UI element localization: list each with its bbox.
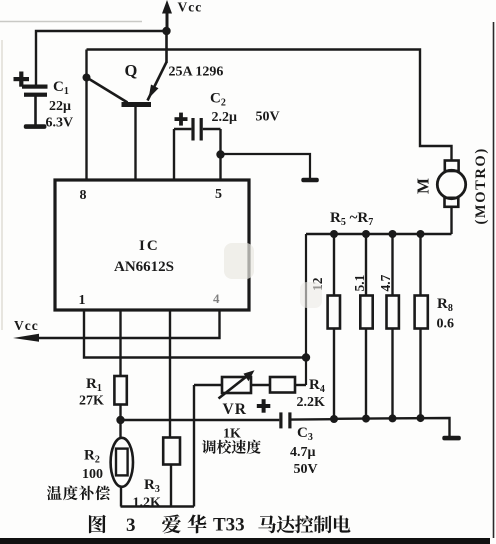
label 1.2K [133, 496, 162, 511]
label 5.1 (R6 value, rotated) [352, 274, 367, 291]
wire R5-R7 top bus [306, 233, 452, 235]
resistor R8 [415, 234, 428, 419]
label 2.2u [212, 110, 238, 125]
capacitor C3 plus sign [257, 399, 271, 413]
svg-text:3: 3 [126, 515, 136, 536]
label R5~R7 [330, 210, 373, 228]
capacitor C1 plus sign [14, 72, 30, 87]
ground (C1) [24, 124, 47, 129]
pin 4 label [213, 291, 220, 306]
potentiometer VR [194, 370, 270, 398]
svg-text:0.6: 0.6 [437, 317, 455, 332]
node bus dot 1 [330, 230, 338, 238]
capacitor C3 [279, 412, 334, 428]
svg-text:VR: VR [223, 401, 247, 418]
node lower bus dot 1 [330, 415, 338, 423]
label 27K [79, 394, 104, 409]
svg-text:(MOTRO): (MOTRO) [473, 147, 489, 224]
motor M [437, 161, 465, 207]
label 6.3V [46, 116, 74, 131]
power Vcc arrow (left) [13, 334, 39, 342]
label R4 [309, 377, 325, 395]
pin 8 label [80, 188, 87, 203]
label R3 [144, 477, 160, 495]
svg-text:1K: 1K [223, 427, 241, 442]
svg-text:6.3V: 6.3V [46, 116, 74, 131]
wire C2 right to IC pin 5 [219, 129, 221, 180]
svg-text:100: 100 [82, 467, 103, 482]
wire bus left end down to R4 node [305, 234, 307, 385]
svg-text:R5 ~R7: R5 ~R7 [330, 210, 373, 228]
capacitor C2 [174, 118, 221, 141]
scan artifact: faint smudge right of IC center [224, 243, 322, 308]
label 25A 1296 [169, 65, 224, 80]
capacitor C2 plus sign [175, 113, 188, 126]
node pin5 junction dot [216, 150, 224, 158]
label 2.2K [297, 395, 326, 410]
node collector junction dot [83, 74, 91, 82]
caption: figure 3 Aiwa T33 motor control circuit [89, 514, 350, 536]
label R1 [86, 376, 102, 394]
resistor R5 [328, 234, 340, 419]
label 0.6 [437, 317, 455, 332]
wire junction to C3 [121, 419, 280, 421]
resistor R6 [360, 234, 372, 419]
label 4.7 (R7 value, rotated) [378, 274, 393, 291]
wire C2 left to IC top [173, 129, 175, 180]
svg-text:2.2K: 2.2K [297, 395, 326, 410]
svg-text:M: M [414, 178, 433, 194]
scan artifact: faint left edge line [1, 40, 3, 330]
resistor R3 [163, 309, 180, 507]
node dot pin1/bus junction [302, 353, 310, 361]
svg-text:5.1: 5.1 [352, 274, 367, 291]
svg-text:1: 1 [79, 293, 86, 308]
svg-text:AN6612S: AN6612S [114, 259, 174, 275]
wire Vcc node to emitter [165, 31, 168, 63]
wire collector rail to motor [87, 50, 452, 162]
label AN6612S [114, 259, 174, 275]
label C2 [210, 91, 226, 109]
resistor R1 [114, 309, 126, 420]
label wendubuchang (temperature compensation) [47, 486, 110, 501]
node lower bus dot 4 [417, 414, 425, 422]
node lower bus dot 3 [389, 414, 397, 422]
node lower bus dot 2 [362, 415, 370, 423]
svg-text:Vcc: Vcc [14, 318, 39, 333]
label 50V (C2) [256, 110, 280, 125]
wire VR left to bottom bus [193, 385, 195, 507]
svg-text:22μ: 22μ [49, 99, 71, 114]
capacitor C1 [22, 85, 48, 126]
wire collector node to IC pin 8 [85, 50, 87, 181]
node bus dot 3 [389, 230, 397, 238]
svg-text:4.7: 4.7 [378, 274, 393, 291]
wire bottom bus [121, 505, 195, 507]
svg-text:IC: IC [139, 238, 160, 254]
svg-text:Q: Q [125, 61, 138, 80]
pin 5 label [215, 187, 222, 202]
scan artifact: faint top-left line [0, 21, 142, 23]
node bus dot 4 [417, 230, 425, 238]
label VR [223, 401, 247, 418]
svg-text:4.7μ: 4.7μ [290, 445, 316, 460]
ground (right) [442, 436, 461, 441]
svg-text:T33: T33 [213, 515, 245, 536]
scan artifact: bottom black bar [0, 538, 490, 544]
node Vcc junction dot [162, 27, 170, 35]
label R8 [437, 296, 453, 314]
wire lower bus [334, 418, 450, 436]
pin 1 label [79, 293, 86, 308]
label tiaoxiaosudu (adjust speed) [202, 440, 261, 454]
svg-text:5: 5 [215, 187, 222, 202]
svg-text:27K: 27K [79, 394, 104, 409]
label (MOTRO) [473, 147, 489, 224]
label R2 [84, 448, 100, 466]
wire motor to bus [450, 207, 452, 234]
label Vcc (left) [14, 318, 39, 333]
label 100 [82, 467, 103, 482]
svg-text:4: 4 [213, 291, 220, 306]
node bus dot 2 [362, 230, 370, 238]
scan artifact: right border line [493, 22, 495, 538]
label 22u [49, 99, 71, 114]
svg-text:50V: 50V [294, 462, 318, 477]
label Vcc (top) [178, 0, 203, 15]
wire IC pin 4 to Vcc arrow [36, 309, 220, 338]
label 4.7u [290, 445, 316, 460]
wire pin5 node to ground [221, 154, 311, 178]
power Vcc arrow (top) [162, 0, 172, 31]
svg-text:Vcc: Vcc [178, 0, 203, 15]
resistor R7 [387, 234, 399, 419]
ground (C2 side) [301, 178, 319, 182]
label IC [139, 238, 160, 254]
wire IC pin 1 to junction [84, 309, 306, 358]
label Q [125, 61, 138, 80]
wire C1 top to Vcc node [36, 31, 167, 85]
node dot R1/R2/C3 junction [116, 416, 124, 424]
label 1K [223, 427, 241, 442]
svg-text:1.2K: 1.2K [133, 496, 162, 511]
label M (motor) [414, 178, 433, 194]
svg-text:2.2μ: 2.2μ [212, 110, 238, 125]
svg-text:25A 1296: 25A 1296 [169, 65, 224, 80]
transistor Q 2SA1296 [88, 62, 167, 180]
label 12 (R5 value, rotated) [310, 277, 325, 291]
label 50V (C3) [294, 462, 318, 477]
resistor R2 (temperature compensation) [111, 420, 133, 507]
label C1 [53, 79, 69, 97]
svg-text:50V: 50V [256, 110, 280, 125]
svg-text:8: 8 [80, 188, 87, 203]
resistor R4 [270, 377, 306, 393]
label C3 [297, 425, 313, 443]
op-amp IC AN6612S box [55, 180, 249, 310]
